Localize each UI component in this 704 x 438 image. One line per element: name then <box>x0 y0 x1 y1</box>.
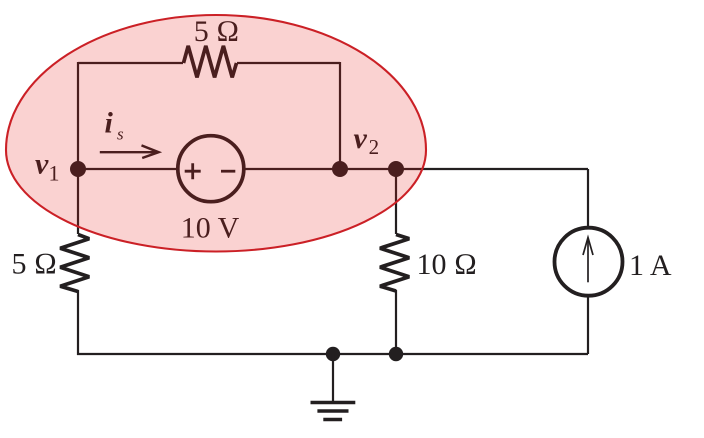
svg-text:5 Ω: 5 Ω <box>11 248 57 281</box>
resistor R-left 5 ohm zigzag <box>60 235 89 292</box>
voltage source V1 10V circle <box>178 136 244 202</box>
wire 10ohm branch upper <box>395 169 397 234</box>
wire right vertical upper <box>587 169 589 228</box>
resistor R-mid 10 ohm zigzag <box>380 235 409 292</box>
wire 10ohm branch lower <box>395 290 397 354</box>
node bottom 10ohm junction dot <box>389 347 403 361</box>
current source I1 1A circle <box>555 228 623 296</box>
svg-text:1 A: 1 A <box>629 249 672 282</box>
wire left vertical lower <box>77 290 79 355</box>
label 5 ohm (top resistor) <box>194 15 240 48</box>
label v1 <box>35 148 60 186</box>
node bottom ground junction dot <box>326 347 340 361</box>
wire v2 to right branch <box>396 168 588 170</box>
current arrow i_s <box>100 145 159 158</box>
label 10 ohm <box>417 248 478 281</box>
wire bottom horizontal <box>77 353 588 355</box>
supernode highlight ellipse <box>6 15 426 251</box>
wire v2 junction segment <box>340 168 396 170</box>
label i_s <box>105 107 125 144</box>
label 5 ohm (left resistor) <box>11 248 57 281</box>
node v2 dot left <box>332 161 348 177</box>
resistor R-top 5 ohm zigzag <box>184 46 237 78</box>
wire right vertical of top loop <box>339 62 341 169</box>
wire right vertical lower <box>587 296 589 354</box>
wire left vertical upper <box>77 62 79 169</box>
wire top-left horizontal <box>78 62 183 64</box>
svg-text:10 Ω: 10 Ω <box>417 248 478 281</box>
label 10 V <box>181 212 240 245</box>
label v2 <box>354 122 380 159</box>
wire voltage source to v2 <box>243 168 340 170</box>
wire v1 to voltage source <box>78 168 177 170</box>
label 1 A <box>629 249 672 282</box>
wire top-right horizontal <box>237 62 340 64</box>
node v2 junction dot right <box>388 161 404 177</box>
wire left vertical v1 to resistor <box>77 169 79 234</box>
node v1 dot <box>70 161 86 177</box>
ground symbol <box>311 354 356 420</box>
